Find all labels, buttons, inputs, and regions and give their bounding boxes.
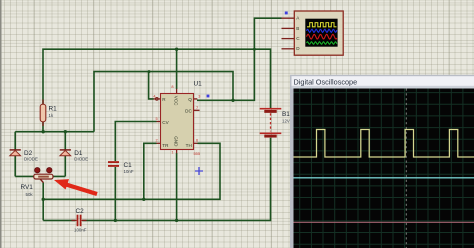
svg-text:VCC: VCC [174, 96, 179, 106]
svg-text:5: 5 [156, 116, 158, 121]
svg-text:TH: TH [186, 143, 192, 148]
svg-text:Q: Q [188, 97, 192, 102]
svg-text:DC: DC [185, 108, 192, 113]
svg-text:6: 6 [196, 138, 198, 143]
svg-text:C2: C2 [76, 208, 85, 215]
svg-text:100nF: 100nF [74, 228, 87, 233]
svg-text:B1: B1 [282, 111, 290, 118]
svg-text:50k: 50k [26, 192, 34, 197]
svg-text:TR: TR [162, 143, 169, 148]
svg-text:1k: 1k [49, 113, 54, 118]
svg-text:10nF: 10nF [124, 169, 134, 174]
svg-text:CV: CV [162, 120, 169, 125]
svg-text:555: 555 [194, 151, 201, 156]
svg-text:B: B [296, 26, 299, 31]
svg-text:3: 3 [198, 94, 200, 99]
svg-text:2: 2 [156, 138, 158, 143]
svg-text:GND: GND [174, 136, 179, 147]
svg-text:RV1: RV1 [21, 184, 34, 191]
svg-text:12V: 12V [282, 119, 290, 124]
svg-text:DIODE: DIODE [24, 157, 38, 162]
svg-text:DIODE: DIODE [74, 157, 88, 162]
svg-text:U1: U1 [194, 80, 203, 87]
svg-text:7: 7 [196, 105, 198, 110]
svg-text:C1: C1 [124, 162, 133, 169]
svg-text:8: 8 [171, 84, 173, 89]
svg-text:1: 1 [171, 150, 173, 155]
svg-text:R1: R1 [49, 106, 58, 113]
svg-text:Digital Oscilloscope: Digital Oscilloscope [294, 78, 358, 87]
